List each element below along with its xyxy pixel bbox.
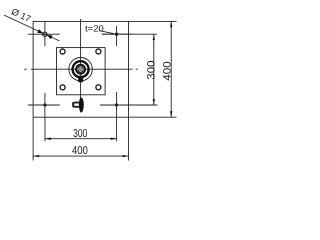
inner bolt hole top-right bbox=[96, 49, 101, 54]
right ext line hole row bottom bbox=[100, 104, 157, 106]
hub center dot bbox=[80, 68, 82, 70]
right ext line hole row top bbox=[102, 33, 157, 35]
bottom ext line right hole column bbox=[116, 120, 118, 141]
plate hole top-right bbox=[102, 26, 132, 46]
hub inner ring bbox=[76, 65, 85, 74]
right 300 dim line bbox=[153, 34, 155, 105]
top edge extension line to 400 dim bbox=[129, 20, 177, 22]
svg-text:Ø 17: Ø 17 bbox=[10, 7, 32, 25]
right 400 dim arrow bottom bbox=[170, 111, 172, 117]
hub horizontal centerline bbox=[24, 68, 138, 70]
diameter leader line bbox=[4, 15, 59, 41]
bottom edge extension line to 400 dim bbox=[129, 116, 177, 118]
bottom ext line plate left edge bbox=[32, 117, 34, 160]
bottom plug lens bbox=[79, 98, 84, 113]
bottom ext line plate right edge bbox=[128, 117, 130, 160]
leader arrowhead upper-left bbox=[37, 29, 43, 33]
hub thick ring bbox=[73, 61, 89, 77]
hub center diamond bbox=[78, 67, 83, 72]
svg-text:400: 400 bbox=[162, 61, 174, 81]
bottom 300 dim arrow left bbox=[45, 138, 51, 140]
t=20 leader dot bbox=[115, 33, 118, 36]
hub vertical centerline bbox=[80, 19, 82, 113]
inner square (boss) bbox=[57, 48, 106, 95]
svg-text:t=20: t=20 bbox=[85, 23, 104, 33]
bottom plug block bbox=[72, 102, 79, 108]
bottom 300 dim line bbox=[45, 138, 117, 140]
plate hole bottom-left bbox=[28, 93, 60, 120]
right 300 dim arrow top bbox=[153, 34, 155, 40]
inner bolt hole bottom-left bbox=[60, 85, 65, 90]
inner bolt hole top-left bbox=[60, 49, 65, 54]
hub keyway tab bbox=[78, 76, 83, 82]
bottom 400 dim line bbox=[33, 155, 128, 157]
right 400 dim arrow top bbox=[170, 21, 172, 27]
svg-text:300: 300 bbox=[146, 60, 158, 79]
svg-text:400: 400 bbox=[72, 145, 88, 157]
bottom ext line left hole column bbox=[44, 120, 46, 141]
inner bolt hole bottom-right bbox=[96, 85, 101, 90]
hub outer circle bbox=[69, 57, 92, 80]
leader arrowhead lower-right bbox=[47, 35, 53, 39]
right 300 dim arrow bottom bbox=[153, 99, 155, 105]
t=20 leader bbox=[99, 31, 117, 35]
bottom 300 dim arrow right bbox=[111, 138, 117, 140]
plate outline 400x400 bbox=[33, 21, 128, 117]
hub bore disc bbox=[77, 66, 84, 73]
bottom 400 dim arrow right bbox=[123, 155, 129, 157]
plate hole bottom-right bbox=[100, 92, 133, 120]
bottom 400 dim arrow left bbox=[33, 155, 39, 157]
plate hole top-left (dimensioned) bbox=[28, 21, 60, 46]
right 400 dim line bbox=[170, 21, 172, 117]
svg-text:300: 300 bbox=[73, 128, 87, 140]
